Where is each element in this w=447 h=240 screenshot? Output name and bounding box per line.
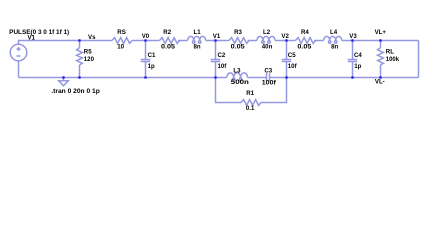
svg-text:VL+: VL+	[375, 29, 387, 36]
svg-text:R4: R4	[301, 29, 309, 36]
svg-text:40n: 40n	[262, 44, 273, 51]
wire C4 leads	[352, 41, 354, 60]
svg-text:RL: RL	[386, 49, 394, 56]
resistor R3	[229, 38, 249, 44]
svg-text:R3: R3	[234, 29, 242, 36]
wire C5 leads	[286, 41, 288, 60]
wire rail C3 to right edge	[270, 77, 419, 79]
node Vs junction	[78, 39, 81, 42]
node V1 junction	[214, 39, 217, 42]
wire source bottom stub	[18, 61, 20, 78]
capacitor C2	[211, 60, 221, 62]
svg-text:10: 10	[117, 44, 124, 51]
resistor R5	[77, 48, 83, 65]
wire ground rail left	[19, 77, 227, 79]
svg-text:V1: V1	[28, 35, 36, 42]
svg-text:C1: C1	[148, 52, 156, 59]
ground	[59, 78, 69, 86]
junction C2 bottom	[214, 76, 217, 79]
svg-text:R2: R2	[163, 29, 171, 36]
wire L4 to right corner	[342, 40, 419, 42]
svg-text:.tran 0 20n 0 1p: .tran 0 20n 0 1p	[51, 88, 100, 95]
svg-text:L1: L1	[194, 29, 202, 36]
svg-text:8n: 8n	[331, 44, 338, 51]
wire R5 leads	[79, 41, 81, 48]
svg-text:R5: R5	[84, 49, 92, 56]
svg-text:RS: RS	[117, 29, 125, 36]
svg-text:PULSE(0 3 0 1f 1f 1): PULSE(0 3 0 1f 1f 1)	[9, 29, 69, 36]
inductor L1	[188, 36, 206, 43]
resistor RS	[112, 38, 132, 44]
svg-text:V1: V1	[213, 33, 221, 40]
junction C4 bottom	[351, 76, 354, 79]
node VL+ junction	[379, 39, 382, 42]
svg-text:500n: 500n	[231, 79, 249, 86]
inductor L3	[227, 73, 248, 81]
capacitor C1	[141, 60, 151, 62]
voltage source V1	[10, 44, 27, 61]
wire R4 to L4	[314, 40, 324, 42]
node V0 junction	[144, 39, 147, 42]
svg-text:10f: 10f	[218, 63, 228, 70]
svg-text:8n: 8n	[194, 44, 201, 51]
junction R5 bottom	[78, 76, 81, 79]
svg-text:1p: 1p	[354, 63, 361, 70]
wire top from source to RS	[19, 41, 113, 45]
wire RS to R2	[132, 40, 160, 42]
junction C1 bottom	[144, 76, 147, 79]
svg-text:L2: L2	[263, 29, 271, 36]
svg-text:V0: V0	[142, 33, 150, 40]
resistor RL	[378, 48, 384, 65]
svg-text:0.05: 0.05	[161, 44, 176, 51]
junction C5 bottom	[285, 76, 288, 79]
svg-text:R1: R1	[246, 90, 254, 97]
svg-text:100f: 100f	[262, 80, 277, 87]
capacitor C3	[267, 73, 270, 81]
inductor L4	[324, 36, 342, 43]
wire L1 to R3	[206, 40, 229, 42]
svg-text:V3: V3	[349, 33, 357, 40]
svg-text:120: 120	[84, 56, 95, 63]
svg-text:100k: 100k	[386, 56, 400, 63]
wire R1 branch left	[216, 78, 242, 103]
wire R3 to L2	[248, 40, 258, 42]
wire RL leads	[380, 41, 382, 48]
wire right edge	[418, 41, 420, 78]
svg-text:C4: C4	[354, 52, 362, 59]
capacitor C4	[348, 60, 358, 62]
node VL- junction	[379, 76, 382, 79]
wire R2 to L1	[178, 40, 188, 42]
svg-text:1p: 1p	[148, 63, 155, 70]
resistor R4	[296, 38, 316, 44]
svg-text:Vs: Vs	[88, 34, 96, 41]
svg-text:0.05: 0.05	[231, 44, 246, 51]
junction ground	[62, 76, 65, 79]
inductor L2	[257, 36, 275, 43]
svg-text:C5: C5	[288, 52, 296, 59]
wire C1 leads	[145, 41, 147, 60]
svg-text:0.1: 0.1	[246, 105, 255, 112]
resistor R1	[241, 100, 261, 106]
svg-text:0.05: 0.05	[297, 44, 312, 51]
svg-text:L3: L3	[233, 67, 241, 74]
node V3 junction	[351, 39, 354, 42]
capacitor C5	[282, 60, 292, 62]
svg-text:L4: L4	[330, 29, 338, 36]
wire R1 branch right	[261, 78, 287, 103]
svg-text:C3: C3	[264, 67, 272, 74]
wire L2 to R4	[275, 40, 296, 42]
resistor R2	[160, 38, 180, 44]
svg-text:VL-: VL-	[375, 78, 385, 85]
wire C2 leads	[215, 41, 217, 60]
wire rail L3 to C3	[248, 77, 267, 79]
node V2 junction	[285, 39, 288, 42]
svg-text:10f: 10f	[288, 63, 298, 70]
svg-text:C2: C2	[218, 52, 226, 59]
svg-text:V2: V2	[281, 33, 289, 40]
